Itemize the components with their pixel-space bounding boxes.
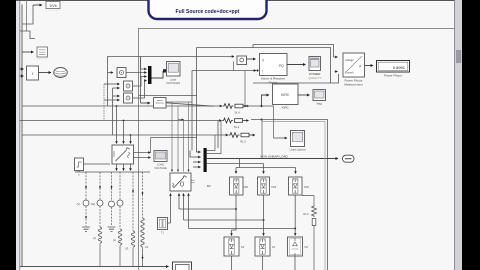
mux bar M2: [204, 148, 207, 172]
series RLC branch SL4: [223, 104, 250, 115]
wire to Vabc display: [22, 51, 34, 53]
wire current line: [192, 70, 256, 72]
scope bottom: [173, 262, 192, 270]
inductor D: [113, 229, 122, 267]
wire load voltage scope in 1: [134, 152, 151, 154]
wire B1 out C: [130, 164, 132, 171]
breaker block B1: [112, 145, 134, 164]
svg-text:(V): (V): [77, 202, 81, 206]
top hairline: [16, 0, 462, 1]
block Power Factor Measurement: [343, 53, 365, 87]
wire row3 to NLL: [261, 120, 263, 159]
arrow into D06: [295, 168, 297, 174]
wire h95: [139, 95, 197, 97]
left bus rail: [21, 5, 23, 267]
wire mux2 in 1: [197, 150, 201, 152]
branch D source: [117, 172, 123, 229]
wire VM2 out: [133, 77, 147, 87]
block Active & Reactive Power: [260, 54, 288, 85]
wire tap VM2a: [104, 83, 120, 85]
phase wire C: [22, 134, 228, 136]
phase wire A: [22, 105, 222, 107]
wire mux extra in: [141, 57, 147, 70]
wire staircase top-left: [20, 5, 36, 39]
wire VM3 out: [133, 81, 147, 99]
bottom wire to scope: [20, 266, 169, 268]
junction dot phase A: [244, 105, 246, 107]
wire PF to display: [365, 65, 374, 67]
wire PQ to scope: [287, 64, 306, 66]
measurement block VMtop: [237, 56, 247, 65]
wire VMtop to PQ block: [247, 58, 256, 60]
svg-text:U1: U1: [145, 245, 149, 249]
svg-text:Load current: Load current: [290, 148, 306, 152]
svg-text:D6: D6: [305, 245, 309, 249]
wire to small block SB1: [141, 102, 151, 104]
arrow into D6b: [294, 231, 296, 236]
right black bar: [462, 0, 480, 270]
left window edge line: [19, 0, 20, 270]
wire mux1 to scope: [152, 71, 164, 78]
svg-text:(W): (W): [91, 202, 96, 206]
wire B2 out 1: [170, 194, 172, 224]
arrow into D08: [235, 168, 237, 174]
wire top bus: [108, 57, 235, 73]
scrollbar thumb: [456, 50, 461, 63]
wire tap VM3a: [113, 95, 120, 97]
inductor B: [93, 227, 102, 267]
junction dot row2: [261, 119, 263, 121]
staircase to bridges: [168, 209, 296, 229]
wire mux2 in 4: [193, 166, 201, 168]
voltage measurement VM2: [124, 81, 133, 91]
svg-text:QUALITY: QUALITY: [308, 76, 321, 80]
wire mid vertical 1: [140, 57, 142, 104]
gain block 1/Vbase: [46, 2, 60, 11]
arrow into D4: [231, 230, 233, 236]
wire B2 feed 1: [171, 102, 173, 172]
wire B2 feed 2: [177, 106, 179, 172]
voltage measurement VM3: [124, 93, 133, 103]
wire s to B1: [84, 163, 111, 165]
voltage measurement VM1: [117, 68, 126, 78]
wire B1 feed B: [123, 121, 125, 144]
wire s drop: [78, 171, 80, 172]
thyristor bridge D6: [288, 237, 309, 256]
resistor RL2 vertical: [302, 196, 316, 270]
wire NLL drop: [236, 159, 296, 168]
svg-text:Full Source code+doc+ppt: Full Source code+doc+ppt: [176, 9, 240, 15]
svg-text:LOAD: LOAD: [157, 163, 164, 167]
wire B1 out B: [123, 164, 125, 171]
wire mux2 out 2: [207, 163, 264, 165]
wire vertical x218: [217, 121, 219, 149]
thyristor bridge D4: [224, 237, 245, 256]
branch B source: [91, 172, 103, 227]
thyristor bridge D1: [255, 237, 276, 256]
svg-text:D04: D04: [272, 185, 277, 189]
wire tap VM2b: [113, 87, 120, 89]
svg-text:Power FActor: Power FActor: [384, 74, 402, 78]
source top bus: [75, 171, 150, 173]
display Power Factor: [377, 61, 410, 78]
svg-text:VOLTAGE: VOLTAGE: [154, 166, 167, 170]
wire B2 out 3: [183, 194, 185, 221]
wire upper tap bus: [166, 101, 192, 103]
arrow into D04: [263, 164, 265, 174]
svg-text:D4: D4: [241, 245, 245, 249]
small block SB1: [154, 98, 167, 109]
junction dot B1 tap C: [130, 134, 132, 136]
svg-text:D08: D08: [243, 185, 248, 189]
window edge: [454, 0, 455, 270]
function block f: [27, 66, 39, 80]
svg-text:RL3: RL3: [240, 140, 246, 144]
junction dot: [257, 70, 259, 72]
THD cylinder block: [54, 68, 68, 78]
svg-text:B2: B2: [207, 184, 211, 188]
wire row1 continuation: [243, 106, 274, 138]
scope Vag: [313, 90, 326, 106]
svg-text:0.8991: 0.8991: [393, 65, 406, 70]
diagonal wire: [166, 103, 214, 106]
wire rail VM2: [103, 84, 105, 121]
wire current drop: [234, 62, 246, 107]
wire B1 out A: [116, 164, 118, 171]
svg-text:Current: Current: [345, 71, 354, 75]
arrow into D1: [263, 231, 265, 236]
phase wire B: [20, 120, 222, 122]
junction dot phase2-D08: [235, 208, 237, 210]
junction dot KIRC tap: [261, 105, 263, 107]
scope POWER QUALITY: [308, 57, 321, 81]
svg-text:VOLTAGES: VOLTAGES: [166, 81, 180, 85]
svg-text:D06: D06: [304, 185, 309, 189]
svg-text:Vag: Vag: [316, 102, 321, 106]
svg-text:KIRC: KIRC: [282, 106, 290, 110]
wire scope feed: [151, 138, 197, 153]
scope LOAD VOLTAGE 2: [154, 151, 167, 171]
wire f input 2: [20, 75, 24, 77]
junction dot phase3-D04: [263, 219, 265, 221]
callout Full Source: [149, 0, 267, 19]
thyristor bridge D08: [230, 177, 249, 195]
block KIRC: [273, 84, 299, 110]
wire KIRC out: [298, 94, 310, 96]
wire f input 1: [20, 68, 24, 70]
transformer block small: [158, 218, 168, 235]
svg-text:Voltage: Voltage: [345, 58, 354, 62]
svg-text:1/Vb: 1/Vb: [49, 4, 56, 8]
wire tap VM3b: [104, 99, 120, 101]
svg-text:PQ: PQ: [279, 64, 284, 68]
wire B2 out 4: [188, 194, 190, 229]
svg-text:(J): (J): [93, 236, 96, 240]
thyristor bridge D06: [289, 177, 310, 195]
display Vabc: [37, 47, 48, 59]
wire mux2 in 2: [190, 151, 201, 158]
junction dot phase4-D06: [294, 228, 296, 230]
wire load voltage scope in 2: [134, 157, 151, 159]
junction dot B1 tap B: [123, 120, 125, 122]
branch A source: [77, 172, 89, 226]
wire top second: [197, 45, 331, 84]
right rail outer: [251, 120, 328, 270]
right rail inner: [262, 122, 325, 270]
scope Load current: [290, 131, 306, 152]
svg-text:Measurement: Measurement: [344, 83, 363, 87]
wire mux2 in 3: [193, 161, 201, 163]
wire to gain block: [33, 4, 42, 6]
series RLC branch SL1: [222, 118, 249, 129]
wires row1 to row2: [232, 195, 296, 231]
goto tag capsule: [343, 155, 355, 162]
svg-text:RL2: RL2: [303, 212, 309, 216]
wire tap VM1: [108, 72, 114, 74]
mux bar M1: [148, 66, 152, 84]
wire vertical x190: [191, 71, 193, 151]
left rail 2: [26, 0, 28, 31]
wire mux2 up taps: [207, 121, 221, 154]
ground C: [108, 227, 116, 231]
svg-text:D1: D1: [272, 245, 276, 249]
left window strip: [16, 0, 20, 270]
ground A: [82, 227, 90, 231]
port dot: [163, 69, 166, 72]
breaker block B2: [170, 173, 211, 191]
branch F: [141, 172, 149, 267]
wire bus drop: [196, 48, 198, 151]
scope LOAD VOLTAGES: [166, 62, 180, 86]
svg-text:Load: Load: [170, 78, 176, 82]
wire KIRC in: [262, 95, 270, 106]
wire B2 feed 4: [188, 102, 190, 172]
wire top V feed: [253, 45, 338, 58]
wire f to THD: [39, 72, 52, 74]
svg-text:SL1: SL1: [234, 125, 240, 129]
wire B2 feed 3: [178, 120, 184, 172]
wire B2 out 2: [178, 194, 180, 210]
wire NON LINEAR LOAD: [207, 158, 338, 160]
svg-text:SL4: SL4: [234, 111, 240, 115]
wire rail VM1 down: [107, 73, 109, 107]
wires row2 bottoms: [232, 256, 296, 270]
svg-text:KIRC: KIRC: [281, 93, 290, 97]
scrollbar strip: [455, 0, 462, 270]
wire rail VM3: [112, 88, 114, 135]
svg-text:(L): (L): [113, 238, 116, 242]
wire B1 feed C: [130, 135, 132, 144]
wire to load current scope: [274, 137, 288, 139]
svg-text:U3: U3: [125, 247, 129, 251]
wire PF current arrowed: [335, 71, 338, 73]
branch C source: [109, 172, 115, 226]
svg-text:I: I: [262, 70, 263, 74]
thyristor bridge D04: [258, 177, 277, 195]
svg-text:pf: pf: [359, 64, 361, 68]
svg-text:NON LINEAR LOAD: NON LINEAR LOAD: [260, 155, 288, 159]
wire B1 feed A: [116, 106, 118, 144]
branch E: [125, 172, 135, 267]
step block s: [75, 158, 84, 177]
wire VM1 out: [126, 72, 147, 74]
series RLC branch RL3: [229, 133, 256, 144]
wire current to PF: [253, 74, 339, 83]
junction dot B1 tap A: [116, 105, 118, 107]
model outer box: [139, 29, 455, 270]
